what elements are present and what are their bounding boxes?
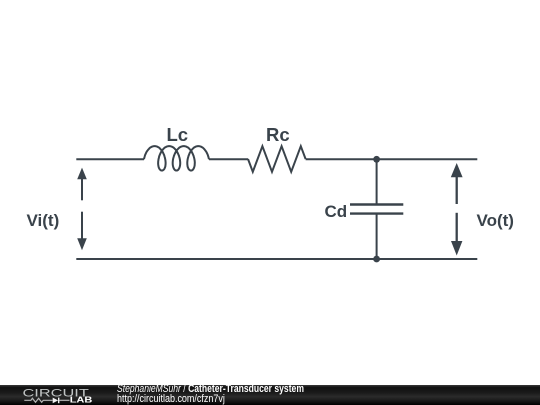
Vi arrow upper shaft: [81, 179, 83, 200]
logo resistor zigzag: [24, 398, 52, 402]
svg-text:Vi(t): Vi(t): [27, 211, 60, 230]
Vi arrowhead up: [77, 168, 87, 180]
svg-text:LAB: LAB: [70, 396, 93, 405]
svg-text:Cd: Cd: [325, 202, 348, 221]
svg-text:Lc: Lc: [167, 124, 189, 145]
wire top-left segment: [76, 158, 144, 160]
capacitor Cd bottom lead: [376, 214, 378, 259]
CircuitLab logo: [0, 385, 100, 405]
inductor Lc: [144, 146, 209, 170]
wire top-right segment: [306, 158, 478, 160]
capacitor Cd top lead: [376, 159, 378, 204]
logo diode: [53, 398, 58, 404]
svg-text:Vo(t): Vo(t): [477, 211, 514, 230]
resistor Rc: [248, 146, 306, 172]
capacitor Cd bottom plate: [350, 212, 403, 214]
Vi arrowhead down: [77, 238, 87, 250]
node dot top: [373, 156, 380, 163]
Vo arrow lower shaft: [456, 213, 458, 242]
Vo arrow upper shaft: [456, 177, 458, 204]
Vo arrowhead up: [451, 163, 463, 177]
wire between Lc and Rc: [209, 158, 248, 160]
wire bottom: [76, 258, 477, 260]
capacitor Cd top plate: [350, 203, 403, 205]
node dot bottom: [373, 256, 380, 263]
svg-text:Rc: Rc: [266, 124, 290, 145]
logo wire to LAB: [59, 399, 69, 401]
Vo arrowhead down: [451, 241, 462, 256]
Vi arrow lower shaft: [81, 212, 83, 239]
